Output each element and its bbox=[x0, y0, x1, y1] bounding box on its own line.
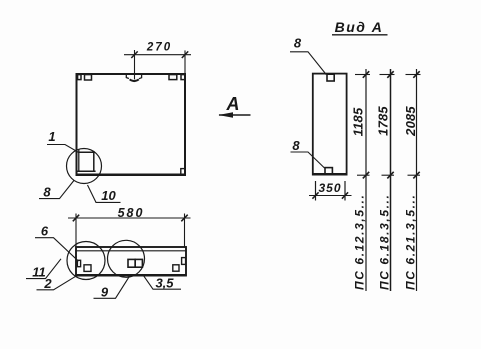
leader line 11 bbox=[26, 259, 61, 279]
strip plan view outline bbox=[76, 247, 186, 276]
strip detail circle right bbox=[108, 240, 145, 277]
svg-text:ПС 6.18.3,5...: ПС 6.18.3,5... bbox=[378, 194, 392, 290]
lifting recess left bracket bbox=[126, 75, 129, 79]
svg-text:2085: 2085 bbox=[403, 106, 418, 137]
strip embed right square bbox=[173, 265, 179, 271]
dimension 580 extension left bbox=[75, 214, 77, 247]
dimension 270 extension right bbox=[184, 50, 186, 73]
side view bottom edge thick bbox=[312, 173, 347, 175]
svg-text:1185: 1185 bbox=[351, 107, 366, 136]
dimension 580 tick right bbox=[181, 215, 187, 222]
svg-text:8: 8 bbox=[294, 36, 302, 51]
svg-text:2: 2 bbox=[43, 276, 52, 291]
strip embed right-edge tiny rect bbox=[182, 258, 186, 265]
side view embed top square bbox=[327, 74, 334, 81]
view direction arrow line bbox=[219, 114, 251, 116]
leader line 9 bbox=[94, 276, 130, 298]
embed plate top-right small bbox=[181, 75, 185, 80]
panel bottom edge thick bbox=[76, 173, 186, 175]
side view outline bbox=[313, 74, 347, 175]
svg-text:ПС 6.12.3,5...: ПС 6.12.3,5... bbox=[353, 194, 367, 290]
leader line 1 bbox=[47, 145, 79, 153]
panel front view outline bbox=[77, 74, 186, 175]
svg-text:A: A bbox=[226, 94, 240, 114]
svg-text:ПС 6.21.3,5...: ПС 6.21.3,5... bbox=[404, 194, 418, 290]
dimension 350 extension right bbox=[344, 181, 346, 201]
strip embed small square left bbox=[84, 265, 91, 272]
svg-text:3,5: 3,5 bbox=[155, 275, 174, 290]
leader line 8 top (side view) bbox=[290, 52, 326, 75]
embed plate top-right wide bbox=[169, 75, 177, 80]
strip bottom edge thick bbox=[76, 274, 186, 276]
embed plate top-left wide bbox=[85, 75, 92, 80]
leader line 3,5 bbox=[143, 274, 182, 289]
dimension 270 extension left bbox=[134, 50, 136, 79]
leader line 2 bbox=[37, 275, 78, 290]
svg-text:Вид А: Вид А bbox=[335, 19, 384, 35]
embed plate bottom-right corner bbox=[181, 169, 185, 175]
view A title underline bbox=[332, 34, 388, 36]
svg-text:6: 6 bbox=[41, 224, 49, 239]
lifting recess right bracket bbox=[139, 75, 142, 79]
dimension 350 line bbox=[309, 195, 352, 197]
dimension 270 line bbox=[124, 54, 191, 56]
dimension 350 tick left bbox=[312, 192, 318, 198]
strip embed left-edge tiny rect (item 6) bbox=[77, 260, 80, 266]
corner detail inner vertical line bbox=[78, 150, 80, 172]
embed plate top-left small bbox=[78, 75, 81, 80]
corner detail embedded angle rect bbox=[77, 152, 96, 171]
dimension 580 tick left bbox=[73, 215, 79, 222]
dimension 350 extension left bbox=[315, 181, 317, 201]
svg-text:8: 8 bbox=[292, 138, 300, 153]
vertical dimension line 1785 bbox=[390, 69, 392, 291]
dimension 270 tick left bbox=[131, 51, 137, 58]
leader line 6 bbox=[35, 238, 79, 262]
strip inner top line bbox=[76, 250, 186, 252]
svg-text:9: 9 bbox=[101, 285, 109, 300]
strip embed center square a bbox=[128, 259, 135, 267]
tick group top of vertical dims bbox=[355, 74, 421, 76]
svg-text:580: 580 bbox=[118, 206, 145, 220]
view direction arrowhead bbox=[218, 112, 233, 118]
svg-text:1: 1 bbox=[48, 129, 55, 144]
lifting recess arc bbox=[130, 79, 139, 81]
svg-text:10: 10 bbox=[101, 188, 116, 203]
dimension 270 tick right bbox=[182, 51, 188, 58]
vertical dimension line 1185 bbox=[365, 69, 367, 291]
strip detail circle left bbox=[67, 242, 105, 280]
svg-text:8: 8 bbox=[43, 185, 51, 200]
dimension 580 extension right bbox=[184, 214, 186, 247]
svg-text:1785: 1785 bbox=[376, 106, 391, 136]
vertical dimension line 2085 bbox=[416, 69, 418, 291]
leader line 8 bbox=[39, 180, 74, 198]
side view embed bottom square bbox=[325, 168, 332, 175]
dimension 580 line bbox=[68, 217, 191, 219]
svg-text:270: 270 bbox=[146, 41, 172, 53]
svg-text:350: 350 bbox=[318, 181, 341, 195]
leader line 8 bottom (side view) bbox=[291, 152, 325, 168]
detail circle bbox=[67, 149, 102, 184]
leader line 10 bbox=[88, 185, 121, 202]
tick group mid of vertical dims bbox=[357, 174, 420, 176]
dimension 350 tick right bbox=[342, 192, 348, 198]
strip embed center square b bbox=[135, 259, 142, 267]
